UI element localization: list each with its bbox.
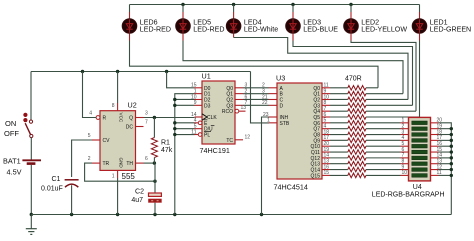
wire LED3 anode stub: [292, 5, 294, 19]
IC U2 555 body: [100, 111, 136, 171]
wire LED1 cathode stub: [419, 34, 421, 41]
LED LED6 LED-RED: [122, 18, 171, 33]
svg-text:CV: CV: [103, 138, 111, 144]
svg-text:74HC191: 74HC191: [200, 146, 230, 155]
svg-text:4: 4: [89, 111, 92, 117]
svg-text:LED-RED: LED-RED: [193, 25, 224, 33]
node bus-LED3 junction: [291, 3, 294, 6]
U4 right pin stubs: [431, 118, 452, 177]
svg-text:D: D: [280, 103, 284, 109]
wire battery to ground rail: [30, 165, 32, 215]
svg-text:LED-YELLOW: LED-YELLOW: [361, 25, 407, 33]
U1 left pin stubs: [191, 83, 202, 137]
node TH-R1 junction: [153, 161, 156, 164]
resistor R1 47k: [151, 118, 172, 164]
svg-text:74HC4514: 74HC4514: [274, 183, 308, 192]
node TR-C2 junction: [153, 180, 156, 183]
node gnd-U1 preset junction: [173, 213, 176, 216]
node battery-ground junction: [30, 213, 33, 216]
wire LED4 cathode to R-pack Q2 row: [234, 38, 408, 100]
svg-text:DC: DC: [126, 125, 134, 131]
svg-text:6: 6: [145, 156, 148, 162]
wire LED6 anode stub: [129, 5, 131, 19]
svg-text:R1: R1: [161, 140, 170, 147]
svg-text:U4: U4: [413, 184, 422, 191]
switch SW1 ON/OFF: [4, 113, 33, 138]
U3 STB pin 1: [267, 118, 277, 124]
svg-text:U3: U3: [276, 73, 285, 82]
node gnd-C1 junction: [70, 213, 73, 216]
wire LED3 cathode stub: [292, 34, 294, 41]
svg-text:5: 5: [88, 133, 91, 139]
wire C2 to ground: [154, 203, 156, 215]
wire LED3 cathode to R-pack Q3 row: [293, 41, 413, 106]
svg-text:LED-White: LED-White: [244, 25, 278, 33]
wire LED1 cathode to R-pack Q5 row: [419, 41, 421, 118]
wire VCC rail: [31, 71, 251, 73]
node gnd-U3 INH junction: [260, 213, 263, 216]
wire 555 VCC pin: [117, 72, 119, 111]
IC U1 74HC191 body: [202, 81, 235, 144]
wire switch to battery: [30, 138, 32, 160]
node gnd-C2 junction: [153, 213, 156, 216]
svg-text:47k: 47k: [161, 147, 173, 154]
LED LED5 LED-RED: [176, 18, 225, 33]
svg-text:TC: TC: [226, 138, 233, 144]
svg-text:Q15: Q15: [311, 173, 321, 179]
resistors RN 470R x16: [330, 86, 366, 178]
LED LED1 LED-GREEN: [412, 18, 471, 33]
battery BAT1 4.5V: [3, 156, 41, 176]
U2 pin 4 R bubble: [96, 116, 100, 120]
LED LED3 LED-BLUE: [286, 18, 339, 33]
wire U4 pin20 to cathode rail: [439, 123, 452, 215]
wire ground rail: [31, 214, 451, 216]
wire VCC to U1 D0: [167, 72, 195, 88]
U3 INH pin 23: [263, 112, 277, 118]
U2 pin 2 stub: [92, 162, 100, 164]
U2 pin names: [103, 113, 134, 169]
svg-text:CLK: CLK: [207, 115, 217, 121]
U2 pin 6 stub: [136, 162, 144, 164]
U3 right pin stubs: [322, 83, 330, 177]
capacitor C1 0.01uF: [41, 176, 79, 193]
svg-text:555: 555: [122, 172, 136, 181]
svg-text:12: 12: [245, 135, 251, 141]
wire LED5 cathode stub: [182, 34, 184, 41]
svg-text:7: 7: [145, 120, 148, 126]
ground symbol: [26, 215, 37, 235]
wire LED2 cathode to R-pack Q4 row: [351, 41, 416, 112]
wire C1 to ground: [71, 185, 73, 214]
wires U1 Q0-Q3 to U3 A-D: [243, 83, 277, 107]
node bus-LED5 junction: [181, 3, 184, 6]
svg-text:8: 8: [112, 103, 115, 109]
svg-text:C2: C2: [135, 189, 144, 196]
wire LED anode bus (top): [130, 4, 420, 6]
wire R1 to C2: [154, 163, 156, 193]
wire 555 GND pin: [117, 170, 119, 214]
svg-text:TH: TH: [126, 161, 133, 167]
wire U1 preset distribution line: [175, 94, 195, 215]
svg-text:LED-GREEN: LED-GREEN: [430, 25, 471, 33]
svg-text:OFF: OFF: [4, 129, 19, 138]
wire LED4 cathode stub: [233, 34, 235, 38]
wire 555 reset to VCC: [83, 72, 97, 118]
svg-text:C1: C1: [52, 176, 61, 183]
svg-text:R: R: [103, 116, 107, 122]
capacitor C2 4u7: [131, 189, 161, 205]
wires R-pack rows Q6-Q15 to bargraph: [366, 118, 409, 177]
node VCC-U1 D0 junction: [165, 70, 168, 73]
svg-text:3: 3: [145, 111, 148, 117]
wire 555 TH to R1: [144, 162, 155, 164]
wire LED6 cathode stub: [129, 34, 131, 41]
node bus-LED4 junction: [232, 3, 235, 6]
svg-text:U1: U1: [202, 71, 211, 80]
svg-text:Q: Q: [129, 116, 133, 122]
svg-text:10: 10: [402, 170, 408, 176]
svg-text:TR: TR: [103, 161, 110, 167]
U1 right pin stubs: [235, 83, 248, 107]
IC U3 74HC4514 body: [277, 83, 322, 179]
svg-text:VCC: VCC: [118, 113, 123, 123]
svg-text:15: 15: [324, 170, 330, 176]
svg-text:4u7: 4u7: [131, 197, 143, 204]
node gnd-555 junction: [116, 213, 119, 216]
svg-text:0.01uF: 0.01uF: [41, 186, 63, 193]
LED LED4 LED-White: [226, 18, 278, 33]
svg-text:1: 1: [112, 174, 115, 180]
node Q-R1 junction: [153, 116, 156, 119]
svg-text:STB: STB: [280, 121, 290, 127]
wire 555 TR loop: [85, 163, 155, 181]
svg-text:LED-BLUE: LED-BLUE: [303, 25, 338, 33]
svg-text:1: 1: [267, 118, 270, 124]
svg-text:470R: 470R: [345, 76, 362, 83]
svg-text:GND: GND: [118, 158, 123, 169]
nodes cathode rail junctions: [450, 127, 453, 177]
LED bargraph U4 body: [409, 117, 431, 180]
svg-text:U2: U2: [128, 101, 137, 110]
U2 pin 5 stub: [92, 139, 100, 141]
wire VCC rail to U3 STB: [251, 72, 270, 123]
svg-text:BAT1: BAT1: [3, 156, 21, 165]
LED LED2 LED-YELLOW: [344, 18, 408, 33]
wire U3 INH to ground: [262, 117, 270, 215]
wire 555 CV to C1: [72, 140, 92, 177]
svg-text:LED-RGB-BARGRAPH: LED-RGB-BARGRAPH: [372, 192, 445, 199]
wire LED5 anode stub: [182, 5, 184, 19]
svg-text:22: 22: [262, 100, 268, 106]
U3 pin names: [280, 86, 321, 180]
wire LED2 cathode stub: [350, 34, 352, 41]
wire LED2 anode stub: [350, 5, 352, 19]
U4 LED segments: [412, 121, 427, 177]
svg-text:2: 2: [88, 156, 91, 162]
svg-text:4.5V: 4.5V: [7, 168, 22, 177]
wires R-pack rows Q0-Q5 to LED risers: [366, 88, 420, 117]
svg-text:RCO: RCO: [222, 109, 233, 115]
U1 pin names: [202, 86, 233, 144]
svg-text:D3: D3: [204, 103, 211, 109]
wire 555 Q to U1 CLK: [144, 117, 195, 119]
wire U1 D2/D3/E/DU/PL taps: [173, 98, 194, 136]
wire LED1 anode stub: [419, 5, 421, 19]
U2 pin 7 DC stub: [136, 126, 144, 128]
svg-text:PL: PL: [204, 133, 210, 139]
svg-text:LED-RED: LED-RED: [140, 25, 171, 33]
U1 RCO pin 13: [235, 105, 246, 113]
node VCC-555 reset junction: [81, 70, 84, 73]
U2 pin 3 stub: [136, 117, 144, 119]
svg-text:ON: ON: [5, 119, 16, 128]
wire LED5 cathode to R-pack Q1 row: [183, 41, 403, 94]
node VCC-555 vcc junction: [116, 70, 119, 73]
wire LED4 anode stub: [233, 5, 235, 19]
wire rail to switch: [30, 72, 32, 121]
U1 TC pin 12: [235, 135, 250, 141]
wire LED6 cathode to R-pack Q0 row: [130, 41, 379, 88]
node bus-LED2 junction: [349, 3, 352, 6]
